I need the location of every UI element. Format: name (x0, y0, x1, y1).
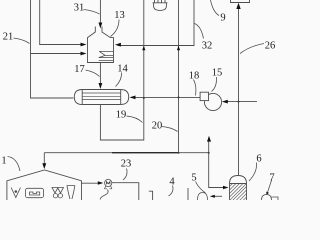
leader 5 (196, 182, 206, 194)
wire darker overlap segment (112, 152, 179, 154)
tall funnel inside plant (67, 186, 75, 200)
arrow into exchanger top (99, 83, 103, 89)
arrow into exchanger right (130, 96, 136, 100)
junction dots (143, 96, 240, 153)
motor symbol top (153, 0, 168, 10)
leader 32 (195, 24, 204, 39)
leader 7 line (267, 180, 272, 194)
arrow junction 19 up (142, 46, 145, 51)
wire riser to vessel 6 (209, 140, 225, 188)
arrow up below fan (207, 136, 211, 142)
heater coil inside tank 13 (99, 51, 114, 60)
arrow into fan (222, 100, 228, 104)
leader 14 (116, 73, 122, 87)
wire bottom stub a (149, 191, 153, 200)
wire loop 19 (100, 46, 143, 140)
wire bottom pump feed (214, 195, 223, 197)
furnace box inside plant (26, 188, 44, 197)
leader 18 (194, 80, 196, 96)
wire tank bottom to exchanger (99, 63, 101, 86)
arrow into top box (236, 3, 240, 9)
leader 1 (8, 157, 21, 172)
pump 23 lower leader curve (100, 190, 108, 200)
arrow into pump 23 (98, 181, 104, 185)
wire line 21 vertical (31, 0, 74, 98)
leader 6 (249, 163, 257, 182)
arrow into bottom pump (210, 195, 215, 198)
svg-text:5: 5 (191, 173, 196, 184)
svg-text:6: 6 (256, 154, 261, 165)
wire branch into tank left lower (31, 53, 85, 55)
leader 31 (84, 10, 100, 15)
svg-text:13: 13 (114, 10, 125, 21)
hatch fill of vessel 6 (230, 184, 247, 201)
hopper with dot inside plant (11, 188, 20, 198)
leader 9 (211, 0, 220, 16)
svg-text:15: 15 (212, 68, 223, 79)
wire pump 23 outlet (112, 183, 139, 200)
vessel 6 hatched (230, 176, 247, 201)
svg-text:4: 4 (169, 177, 175, 188)
wire plant to pump 23 (82, 182, 100, 184)
svg-text:20: 20 (152, 121, 163, 132)
svg-text:19: 19 (116, 110, 127, 121)
deaerator tank 13 (88, 27, 114, 63)
svg-text:17: 17 (74, 64, 85, 75)
arrow into tank top (99, 23, 103, 29)
wire fan inlet arrow line (225, 101, 257, 103)
pump 23 (104, 179, 112, 188)
leader 4 (169, 186, 174, 197)
bottom pump under riser (198, 193, 208, 201)
wire bottom stub b (187, 188, 189, 200)
twin cyclones inside plant (52, 188, 64, 198)
leader 15 (212, 77, 217, 92)
svg-text:31: 31 (74, 3, 85, 14)
arrow tip leader 7 (266, 192, 269, 195)
leader 23 (123, 169, 127, 181)
fan 15 (200, 92, 221, 110)
arrow into tank right (115, 43, 121, 47)
heat exchanger 14 (74, 90, 128, 105)
wire line 19 upper vertical (143, 0, 145, 46)
arrow into tank left lower (81, 52, 87, 56)
wire exchanger right to fan (133, 96, 200, 98)
arrow junction 20 up (177, 46, 180, 51)
leader 17 (86, 70, 100, 77)
svg-text:14: 14 (117, 64, 128, 75)
svg-text:21: 21 (3, 32, 14, 43)
leader 19 (127, 116, 143, 123)
wire plant drop (43, 153, 45, 165)
svg-text:32: 32 (202, 41, 213, 52)
top right box (231, 0, 250, 3)
svg-text:7: 7 (269, 173, 274, 184)
arrow into vessel 6 (223, 186, 229, 190)
wire line 20 lower vertical (178, 46, 180, 153)
wire line 31 vertical (40, 0, 84, 45)
arrow into tank left upper (81, 43, 87, 47)
plant building 1 (7, 170, 82, 200)
svg-text:1: 1 (1, 156, 6, 167)
arrowheads (42, 3, 240, 198)
wire line 20 upper vertical (178, 0, 180, 46)
leader 26 (240, 44, 264, 54)
wire line 32 (118, 0, 194, 46)
svg-text:23: 23 (121, 159, 132, 170)
bottom right pump 7 (262, 195, 279, 201)
wire feed into tank top (99, 0, 101, 24)
leader 13 (111, 20, 120, 37)
wire long horizontal to plant (44, 152, 208, 154)
leader 21 (14, 38, 30, 44)
leader 20 (162, 127, 178, 132)
arrow into plant roof (42, 163, 46, 169)
svg-text:26: 26 (265, 41, 276, 52)
svg-text:9: 9 (220, 13, 225, 24)
svg-text:18: 18 (189, 71, 200, 82)
wire line 26 vertical (238, 8, 240, 176)
